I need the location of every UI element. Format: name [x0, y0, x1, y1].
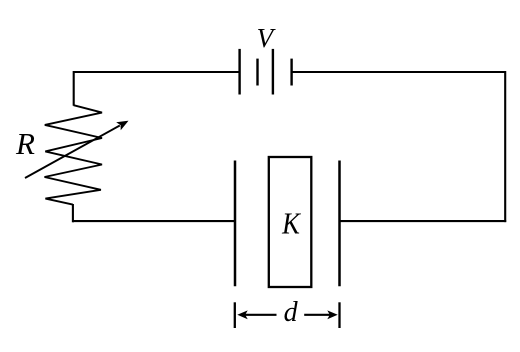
wire top-right horizontal	[292, 71, 506, 73]
rheostat arrow head	[116, 121, 128, 131]
battery V cell2 short plate	[290, 59, 292, 86]
dimension d right arrow shaft	[304, 314, 330, 316]
wire right vertical	[504, 71, 506, 222]
wire left vertical (top corner to resistor)	[73, 71, 75, 106]
dimension d left arrow head	[237, 310, 247, 319]
rheostat arrow shaft	[25, 126, 120, 179]
wire bottom-left horizontal	[73, 220, 235, 222]
dimension d right tick	[338, 302, 340, 328]
dimension d right arrow head	[327, 310, 337, 319]
dielectric slab K rectangle	[269, 157, 312, 287]
capacitor left plate	[234, 161, 237, 287]
svg-text:K: K	[281, 206, 302, 241]
battery V cell1 short plate	[256, 59, 258, 86]
svg-text:R: R	[15, 126, 35, 161]
wire resistor bottom vertical	[72, 204, 74, 222]
capacitor right plate	[338, 161, 341, 287]
wire bottom-right horizontal	[340, 220, 507, 222]
battery V cell1 long plate	[238, 49, 240, 95]
svg-text:d: d	[284, 297, 299, 328]
wire top-left horizontal	[74, 71, 240, 73]
dimension d left arrow shaft	[245, 314, 277, 316]
resistor R zigzag	[45, 105, 103, 204]
battery V cell2 long plate	[272, 49, 274, 95]
dimension d left tick	[234, 302, 236, 328]
svg-text:V: V	[257, 23, 277, 53]
